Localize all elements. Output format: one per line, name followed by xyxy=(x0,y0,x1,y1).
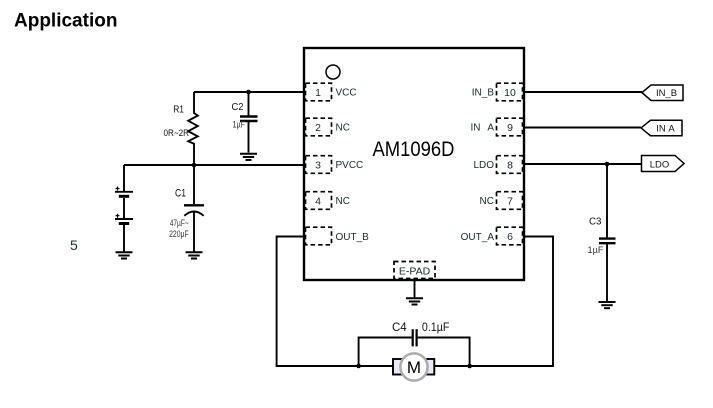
wire C4 left branch xyxy=(359,338,412,367)
E-PAD box xyxy=(394,262,435,279)
node C4 left junction xyxy=(356,364,361,369)
wire IN A (pin 9 to flag) xyxy=(524,127,641,129)
ground (battery) xyxy=(116,252,133,258)
svg-text:IN A: IN A xyxy=(656,124,675,135)
svg-text:220µF: 220µF xyxy=(169,229,189,239)
flag IN_B xyxy=(642,85,683,101)
svg-text:IN_B: IN_B xyxy=(472,88,495,99)
wire E-PAD to ground xyxy=(414,280,416,298)
svg-text:NC: NC xyxy=(480,196,494,207)
node PVCC/R1/C1 junction xyxy=(192,163,197,168)
ground (C1) xyxy=(186,252,203,258)
svg-text:6: 6 xyxy=(507,231,513,243)
svg-text:2: 2 xyxy=(315,122,321,134)
pin 2 box xyxy=(306,118,332,136)
svg-text:LDO: LDO xyxy=(473,160,494,171)
node C4 right junction xyxy=(467,364,472,369)
wire IN_B (pin 10 to flag) xyxy=(524,91,642,93)
pin 1 box xyxy=(306,83,332,101)
svg-text:NC: NC xyxy=(336,196,350,207)
wire VCC net (R1 top to pin 1) xyxy=(194,91,304,93)
capacitor C3 xyxy=(599,164,616,301)
svg-text:IN: IN xyxy=(471,123,481,134)
pin 7 box xyxy=(497,192,523,210)
pin 8 box xyxy=(497,156,523,174)
svg-text:1µF: 1µF xyxy=(588,245,604,256)
node VCC/C2 junction xyxy=(246,90,251,95)
pin 4 box xyxy=(306,192,332,210)
svg-text:VCC: VCC xyxy=(336,88,357,99)
wire OUT_B (pin 5 to motor left) xyxy=(277,237,394,367)
ground (C3) xyxy=(599,302,616,308)
battery (5V supply) xyxy=(115,165,133,252)
pin 10 box xyxy=(497,83,523,101)
battery + marks xyxy=(116,187,120,218)
svg-text:IN_B: IN_B xyxy=(656,88,677,99)
node LDO/C3 junction xyxy=(605,162,610,167)
svg-text:LDO: LDO xyxy=(650,160,670,171)
svg-text:NC: NC xyxy=(336,123,350,134)
svg-text:C2: C2 xyxy=(232,101,244,113)
svg-text:0R~2R: 0R~2R xyxy=(164,128,190,139)
svg-text:M: M xyxy=(407,358,421,377)
motor M right terminal xyxy=(423,359,435,375)
svg-text:C4: C4 xyxy=(392,322,407,334)
pin-1 indicator circle xyxy=(326,65,340,79)
wire C4 right branch xyxy=(418,338,470,367)
svg-text:0.1µF: 0.1µF xyxy=(422,322,450,334)
wire OUT_A (pin 6 to motor right) xyxy=(434,237,553,367)
svg-text:9: 9 xyxy=(507,122,513,134)
op-amp / IC U1 AM1096D body xyxy=(304,48,524,280)
capacitor C4 plates xyxy=(413,329,417,346)
svg-text:10: 10 xyxy=(504,87,516,99)
wire LDO (pin 8 to flag) xyxy=(524,163,642,165)
svg-text:1µF: 1µF xyxy=(233,120,246,130)
svg-text:7: 7 xyxy=(507,196,513,208)
svg-text:C3: C3 xyxy=(589,216,602,228)
svg-text:4: 4 xyxy=(315,196,321,208)
motor M left terminal xyxy=(393,359,405,375)
svg-text:AM1096D: AM1096D xyxy=(373,137,455,161)
svg-text:PVCC: PVCC xyxy=(336,160,364,171)
svg-text:8: 8 xyxy=(507,160,513,172)
svg-text:E-PAD: E-PAD xyxy=(399,266,431,278)
ground (E-PAD) xyxy=(406,298,423,304)
flag LDO xyxy=(642,156,685,172)
svg-text:Application: Application xyxy=(14,11,117,32)
svg-text:A: A xyxy=(487,123,494,134)
svg-text:C1: C1 xyxy=(175,188,186,200)
capacitor C1 (electrolytic) xyxy=(184,165,204,252)
wire PVCC net (battery top to pin 3) xyxy=(124,164,304,166)
motor M body xyxy=(400,353,427,380)
ground (C2) xyxy=(240,154,257,160)
svg-text:OUT_A: OUT_A xyxy=(461,232,495,243)
svg-text:R1: R1 xyxy=(173,104,184,116)
flag IN A xyxy=(641,120,682,135)
pin 3 box xyxy=(306,156,332,174)
svg-text:5: 5 xyxy=(70,237,78,253)
resistor R1 xyxy=(188,92,198,165)
svg-text:47µF~: 47µF~ xyxy=(170,218,189,228)
svg-text:OUT_B: OUT_B xyxy=(336,232,370,243)
pin 5 box (OUT_B) xyxy=(306,227,332,245)
svg-text:1: 1 xyxy=(315,87,321,99)
capacitor C2 xyxy=(240,92,258,153)
svg-text:3: 3 xyxy=(315,160,321,172)
pin 6 box (OUT_A) xyxy=(497,227,523,245)
pin 9 box xyxy=(497,118,523,136)
